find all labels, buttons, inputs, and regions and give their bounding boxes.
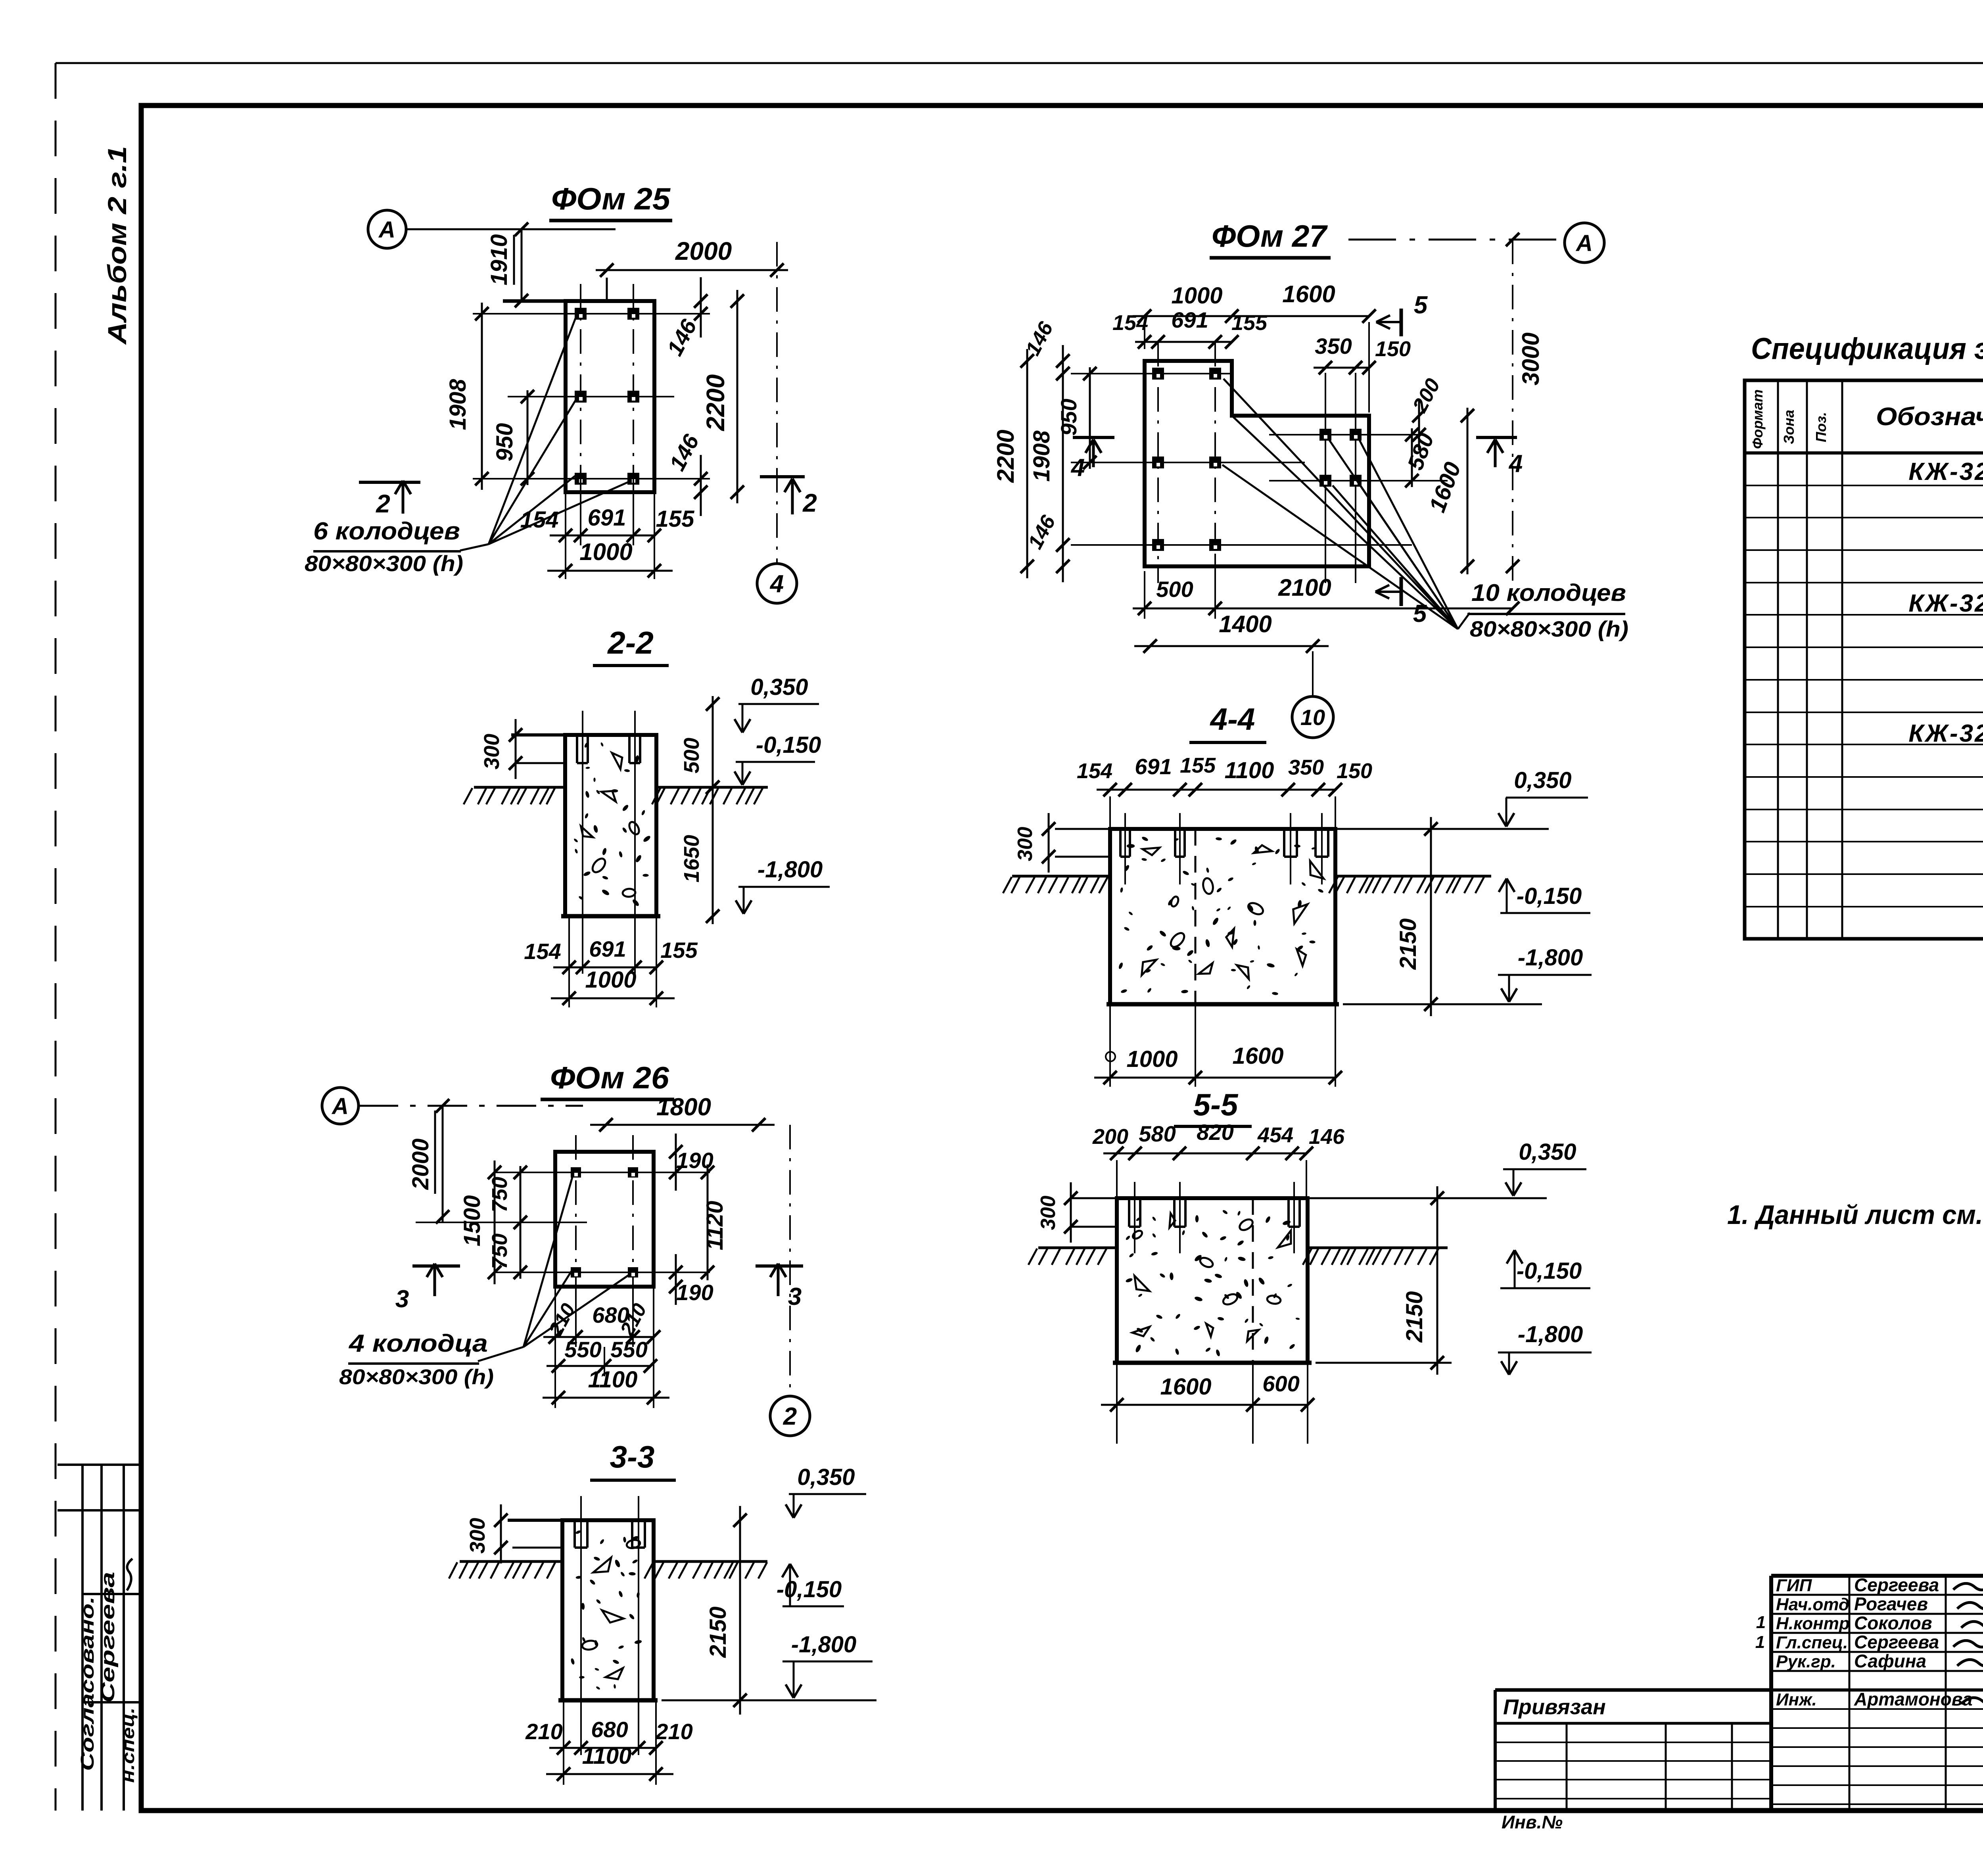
svg-text:1000: 1000	[1126, 1046, 1178, 1072]
axis line A (FOm26)	[359, 1105, 583, 1107]
svg-text:Инж.: Инж.	[1776, 1690, 1817, 1709]
wells 6x (FOm25)	[575, 308, 587, 320]
svg-text:2150: 2150	[1395, 918, 1421, 970]
svg-text:691: 691	[589, 936, 626, 961]
svg-text:2: 2	[376, 489, 390, 518]
svg-text:1910: 1910	[486, 234, 512, 285]
svg-text:454: 454	[1257, 1123, 1293, 1147]
leader 10 wells (FOm27)	[1224, 379, 1458, 629]
svg-text:-0,150: -0,150	[1517, 883, 1582, 909]
svg-text:Сергеева: Сергеева	[98, 1572, 119, 1703]
svg-text:Рук.гр.: Рук.гр.	[1776, 1652, 1836, 1671]
svg-text:2000: 2000	[675, 237, 732, 265]
svg-text:600: 600	[1262, 1371, 1299, 1396]
svg-text:300: 300	[1037, 1196, 1060, 1230]
svg-text:5: 5	[1413, 600, 1427, 627]
svg-text:Привязан: Привязан	[1503, 1695, 1606, 1719]
svg-text:155: 155	[1231, 311, 1268, 335]
section mark 5 top (FOm27)	[1400, 309, 1403, 336]
svg-text:1000: 1000	[579, 539, 632, 565]
svg-text:1650: 1650	[680, 835, 704, 882]
svg-text:н.спец.: н.спец.	[119, 1707, 138, 1783]
anchor wells (4-4)	[1119, 829, 1122, 857]
ground line (2-2)	[474, 786, 565, 789]
svg-text:ГИП: ГИП	[1776, 1576, 1812, 1595]
svg-text:0,350: 0,350	[797, 1464, 855, 1490]
svg-text:-0,150: -0,150	[1517, 1258, 1582, 1284]
bottom dims 1000 1600 (4-4)	[1109, 1004, 1111, 1087]
svg-text:Гл.спец.: Гл.спец.	[1776, 1633, 1848, 1652]
signature squiggles	[1953, 1579, 1983, 1590]
side table signature squiggle	[127, 1559, 132, 1590]
svg-text:Сергеева: Сергеева	[1854, 1575, 1939, 1595]
svg-text:1. Данный лист см. совместно с: 1. Данный лист см. совместно с листами К…	[1727, 1200, 1983, 1230]
svg-text:Обозначение: Обозначение	[1876, 402, 1983, 431]
svg-text:210: 210	[655, 1719, 692, 1744]
svg-text:3000: 3000	[1517, 332, 1544, 385]
axis line A (FOm25)	[406, 228, 616, 230]
svg-text:1: 1	[1755, 1632, 1765, 1652]
dimension 1000 1600 top (FOm27)	[1133, 315, 1244, 317]
svg-text:Формат: Формат	[1749, 389, 1766, 449]
dimension 1650 (2-2)	[712, 779, 714, 924]
svg-text:Альбом 2 г.1: Альбом 2 г.1	[102, 146, 132, 345]
svg-text:КЖ-32: КЖ-32	[1908, 720, 1983, 747]
svg-text:80×80×300 (h): 80×80×300 (h)	[1470, 616, 1628, 641]
anchor wells (3-3)	[573, 1520, 576, 1548]
svg-text:550: 550	[610, 1337, 647, 1362]
dimension 2000 (FOm25)	[596, 269, 788, 271]
ground line (4-4)	[1012, 875, 1110, 878]
svg-text:154: 154	[1112, 311, 1148, 335]
section mark 4 left (FOm27)	[1073, 436, 1114, 439]
ground line (3-3)	[460, 1560, 562, 1563]
well row lines left (FOm27)	[1071, 373, 1233, 374]
svg-text:1100: 1100	[588, 1367, 638, 1393]
dimension 1908 (FOm25)	[481, 303, 483, 490]
dimensions 210 680 210 (FOm26)	[554, 1287, 556, 1408]
svg-text:680: 680	[591, 1717, 628, 1742]
svg-text:2200: 2200	[992, 430, 1019, 483]
svg-text:Зона: Зона	[1781, 410, 1797, 444]
svg-text:80×80×300 (h): 80×80×300 (h)	[339, 1365, 494, 1389]
svg-text:691: 691	[1171, 307, 1208, 332]
svg-text:Согласовано.: Согласовано.	[77, 1596, 98, 1771]
dimension 1100 (FOm26)	[543, 1397, 669, 1399]
svg-text:1600: 1600	[1232, 1043, 1283, 1069]
svg-text:580: 580	[1139, 1121, 1176, 1146]
svg-text:820: 820	[1197, 1120, 1233, 1145]
block outline (4-4)	[1110, 829, 1335, 1004]
axis circle 10 (FOm27)	[1292, 696, 1333, 738]
svg-text:190: 190	[676, 1280, 713, 1305]
svg-text:4: 4	[769, 570, 784, 598]
label 10 kolodtsev (FOm27)	[1458, 613, 1470, 629]
dimension 2150 (5-5)	[1436, 1186, 1438, 1375]
svg-text:А: А	[331, 1093, 349, 1119]
dimension 300 (5-5)	[1071, 1197, 1117, 1199]
svg-text:2: 2	[783, 1403, 797, 1430]
bottom dims 1600 600 (5-5)	[1116, 1363, 1118, 1444]
svg-text:ФОм 26: ФОм 26	[550, 1060, 669, 1095]
anchor wells (2-2)	[576, 735, 578, 763]
svg-text:1000: 1000	[585, 967, 636, 993]
leader 6 wells (FOm25)	[460, 544, 489, 551]
section mark 4 right (FOm27)	[1476, 436, 1517, 439]
svg-text:154: 154	[520, 507, 559, 533]
dimension 146 upper right (FOm25)	[700, 277, 702, 338]
svg-text:1500: 1500	[459, 1195, 485, 1246]
svg-text:150: 150	[1375, 337, 1411, 361]
axis circle 2 (FOm26)	[770, 1396, 810, 1436]
svg-text:Спецификация элементов монол: Спецификация элементов монолитной констр…	[1751, 332, 1983, 366]
axis line A (FOm27)	[1348, 239, 1564, 241]
svg-text:2100: 2100	[1278, 574, 1331, 601]
dimension 300 (2-2)	[515, 719, 517, 779]
wells left 6x (FOm27)	[1152, 368, 1164, 380]
well column centerlines left (FOm27)	[1157, 342, 1159, 583]
svg-text:950: 950	[492, 423, 518, 462]
svg-text:2-2: 2-2	[607, 625, 654, 660]
dimension 500 (2-2)	[712, 696, 714, 795]
dimension 300 (3-3)	[500, 1504, 502, 1563]
dimension 146 top left (FOm27)	[1062, 345, 1064, 389]
dimension 750 750 (FOm26)	[520, 1166, 522, 1279]
svg-text:Сергеева: Сергеева	[1854, 1632, 1939, 1652]
dimension 3000 (FOm27)	[1512, 240, 1513, 583]
svg-text:Инв.№: Инв.№	[1502, 1812, 1563, 1832]
svg-text:1: 1	[1756, 1613, 1766, 1632]
svg-text:-0,150: -0,150	[756, 732, 821, 758]
axis circle A (FOm26)	[322, 1088, 359, 1124]
concrete speckle (4-4)	[1167, 898, 1174, 906]
revision grid	[1566, 1723, 1568, 1811]
svg-text:1400: 1400	[1219, 611, 1271, 637]
section mark 2 right (FOm25)	[760, 475, 805, 478]
pier outline (3-3)	[562, 1520, 654, 1700]
svg-text:3: 3	[395, 1285, 409, 1313]
axis circle A (FOm27)	[1565, 223, 1604, 263]
plan FOm25 outline	[566, 301, 654, 492]
dimension 2000 (FOm26)	[442, 1106, 444, 1222]
svg-text:154: 154	[1077, 759, 1112, 783]
plan FOm27 outline	[1145, 361, 1369, 566]
svg-text:154: 154	[524, 939, 561, 964]
dimension 300 (4-4)	[1055, 828, 1110, 830]
top dims (5-5)	[1103, 1153, 1149, 1155]
svg-text:3-3: 3-3	[610, 1439, 655, 1474]
svg-text:А: А	[1575, 230, 1593, 256]
svg-text:350: 350	[1288, 756, 1324, 779]
svg-text:Н.контр: Н.контр	[1776, 1614, 1850, 1633]
svg-text:500: 500	[680, 738, 704, 773]
svg-text:1800: 1800	[656, 1093, 711, 1121]
block bottom (4-4)	[1107, 1002, 1339, 1007]
block outline (5-5)	[1117, 1198, 1308, 1363]
dimension 1500 (FOm26)	[494, 1161, 496, 1284]
signature table grid	[1849, 1576, 1851, 1811]
svg-text:691: 691	[1135, 754, 1172, 779]
concrete speckle (5-5)	[1244, 1318, 1249, 1323]
section mark 5 bottom (FOm27)	[1400, 577, 1403, 606]
svg-text:550: 550	[564, 1337, 601, 1362]
svg-text:ФОм 27: ФОм 27	[1212, 219, 1328, 253]
dimension 2150 (3-3)	[739, 1506, 741, 1715]
svg-text:4: 4	[1070, 454, 1085, 481]
wells 4x (FOm26)	[571, 1167, 581, 1178]
svg-text:Сафина: Сафина	[1854, 1651, 1926, 1671]
svg-text:300: 300	[466, 1518, 489, 1554]
svg-text:155: 155	[660, 938, 698, 963]
svg-text:0,350: 0,350	[1514, 767, 1571, 793]
well row lines (FOm25)	[473, 313, 710, 315]
dimensions 154 691 155 (FOm25)	[565, 492, 566, 579]
svg-text:750: 750	[488, 1177, 512, 1212]
well column centerlines (FOm25)	[580, 284, 581, 516]
title block frame	[1771, 1574, 1983, 1578]
wells right 4x (FOm27)	[1319, 429, 1331, 441]
svg-text:350: 350	[1315, 334, 1352, 359]
svg-text:2150: 2150	[1402, 1291, 1427, 1343]
svg-text:Рогачев: Рогачев	[1854, 1594, 1928, 1614]
dimension 1600 right (FOm27)	[1467, 408, 1469, 574]
svg-text:ФОм 25: ФОм 25	[551, 181, 671, 216]
well row lines right (FOm27)	[1269, 434, 1424, 435]
pier bottom (3-3)	[558, 1698, 658, 1703]
svg-text:1100: 1100	[582, 1743, 632, 1769]
svg-text:Нач.отд: Нач.отд	[1776, 1595, 1849, 1614]
leader 4 wells (FOm26)	[478, 1347, 524, 1361]
svg-text:2: 2	[802, 489, 817, 517]
svg-text:КЖ-32: КЖ-32	[1908, 590, 1983, 617]
pier bottom (2-2)	[561, 914, 660, 919]
svg-text:-1,800: -1,800	[1518, 1322, 1583, 1347]
svg-text:10: 10	[1300, 705, 1325, 730]
block bottom (5-5)	[1113, 1361, 1312, 1365]
svg-text:-1,800: -1,800	[791, 1632, 856, 1657]
dimension 190 lower (FOm26)	[675, 1254, 677, 1305]
svg-text:-1,800: -1,800	[758, 857, 823, 882]
svg-text:5-5: 5-5	[1193, 1087, 1239, 1122]
svg-text:210: 210	[525, 1719, 562, 1744]
dimension 1100 (3-3)	[546, 1773, 673, 1775]
svg-text:2000: 2000	[408, 1138, 433, 1190]
section mark 3 right (FOm26)	[756, 1264, 803, 1268]
svg-text:691: 691	[588, 505, 626, 531]
svg-text:1600: 1600	[1160, 1374, 1211, 1400]
svg-text:4 колодца: 4 колодца	[348, 1330, 488, 1357]
svg-text:155: 155	[1180, 754, 1216, 777]
well column centerlines (FOm26)	[575, 1135, 577, 1309]
svg-text:Артамонова: Артамонова	[1854, 1689, 1973, 1709]
top dims (4-4)	[1109, 796, 1111, 829]
svg-text:300: 300	[1014, 827, 1037, 861]
axis circle 4 (FOm25)	[757, 564, 797, 603]
axis line to circle 2 (FOm26)	[789, 1125, 791, 1395]
dimension 1000 (2-2)	[551, 997, 675, 999]
dimension 580 (FOm27)	[1411, 428, 1413, 487]
dimension 190 upper (FOm26)	[675, 1134, 677, 1191]
spec table grid	[1745, 380, 1983, 939]
dimension 1000 (FOm25)	[547, 570, 673, 572]
svg-text:155: 155	[656, 506, 695, 532]
well column centerlines right (FOm27)	[1325, 393, 1326, 583]
dimension 146 bottom left (FOm27)	[1062, 529, 1064, 582]
plan FOm26 outline	[555, 1152, 654, 1287]
section mark 2 left (FOm25)	[359, 481, 420, 484]
svg-text:6 колодцев: 6 колодцев	[313, 518, 460, 545]
axis line to circle 10 (FOm27)	[1312, 651, 1314, 696]
svg-text:950: 950	[1056, 399, 1081, 435]
dimensions 154 691 155 (2-2)	[568, 916, 570, 1007]
dimension 2200 (FOm25)	[736, 290, 738, 503]
dimension 950 (FOm25)	[527, 390, 529, 485]
dimension 1800 (FOm26)	[590, 1124, 775, 1126]
svg-text:2200: 2200	[701, 374, 730, 431]
dimension 1908 (FOm27)	[1062, 367, 1064, 551]
axis circle A (FOm25)	[368, 210, 406, 248]
svg-text:80×80×300 (h): 80×80×300 (h)	[305, 551, 463, 576]
svg-text:Поз.: Поз.	[1813, 412, 1829, 442]
dimension 350 150 (FOm27)	[1314, 367, 1367, 369]
side approval table	[81, 1465, 84, 1811]
dimension 154 691 155 (FOm27)	[1135, 341, 1168, 343]
svg-text:КЖ-32: КЖ-32	[1908, 458, 1983, 485]
svg-text:1600: 1600	[1282, 281, 1335, 307]
svg-text:1908: 1908	[1029, 430, 1055, 482]
dimension 1400 (FOm27)	[1134, 645, 1329, 647]
svg-text:146: 146	[1309, 1125, 1345, 1149]
sheet outer border	[56, 62, 1983, 64]
dimensions 210 680 210 (3-3)	[563, 1700, 564, 1785]
dimension 1910 (FOm25)	[521, 229, 523, 301]
svg-text:0,350: 0,350	[750, 674, 808, 700]
anchor wells (5-5)	[1128, 1198, 1130, 1227]
svg-text:4-4: 4-4	[1210, 702, 1255, 737]
dimension 2200 (FOm27)	[1026, 349, 1028, 578]
svg-text:2150: 2150	[705, 1606, 731, 1658]
svg-text:300: 300	[480, 734, 504, 769]
svg-text:150: 150	[1337, 759, 1372, 783]
svg-text:500: 500	[1156, 577, 1193, 602]
svg-text:1000: 1000	[1171, 283, 1222, 309]
svg-text:5: 5	[1414, 292, 1428, 319]
svg-text:750: 750	[488, 1233, 512, 1269]
svg-text:0,350: 0,350	[1519, 1139, 1576, 1165]
axis line to circle 4 (FOm25)	[776, 242, 778, 563]
svg-text:4: 4	[1508, 450, 1523, 478]
dimension 146 lower right (FOm25)	[700, 455, 702, 516]
svg-text:1908: 1908	[445, 379, 471, 430]
svg-text:10 колодцев: 10 колодцев	[1471, 579, 1626, 606]
svg-text:1120: 1120	[702, 1201, 728, 1251]
dimension 500 2100 (FOm27)	[1144, 571, 1145, 619]
pier outline (2-2)	[565, 735, 656, 916]
concrete speckle (3-3)	[629, 1613, 635, 1620]
svg-text:1100: 1100	[1225, 758, 1274, 783]
svg-text:200: 200	[1092, 1125, 1128, 1149]
ground line (5-5)	[1038, 1247, 1117, 1249]
dimension 950 (FOm27)	[1089, 367, 1091, 469]
dimension 550 550 (FOm26)	[547, 1365, 616, 1367]
svg-text:А: А	[378, 217, 395, 243]
well row lines (FOm26)	[496, 1172, 710, 1173]
svg-text:-1,800: -1,800	[1518, 945, 1583, 971]
dimension 2150 (4-4)	[1430, 817, 1432, 1016]
svg-text:Соколов: Соколов	[1854, 1613, 1932, 1633]
dimension 1120 (FOm26)	[707, 1164, 709, 1280]
concrete speckle (2-2)	[573, 838, 579, 843]
dimension 200 (FOm27)	[1418, 400, 1420, 451]
svg-text:-0,150: -0,150	[777, 1577, 842, 1602]
section mark 3 left (FOm26)	[412, 1264, 460, 1268]
plan FOm25 top edge extension	[503, 299, 566, 303]
